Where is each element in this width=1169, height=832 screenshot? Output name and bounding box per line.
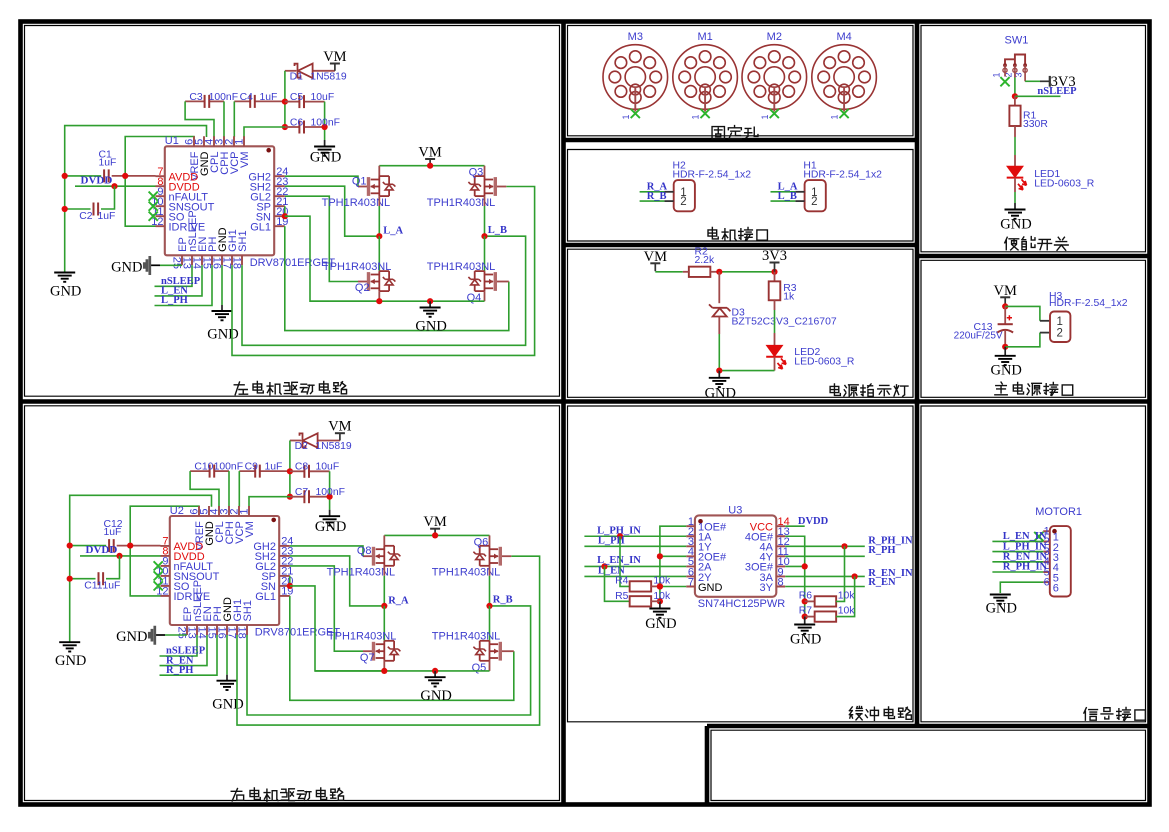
ground GND bottom rail U1	[429, 301, 431, 307]
svg-text:VM: VM	[323, 49, 346, 65]
svg-text:Q2: Q2	[355, 282, 370, 294]
svg-text:L_EN_IN: L_EN_IN	[597, 555, 641, 566]
wire SP-SN tie U2	[289, 576, 291, 586]
svg-text:100nF: 100nF	[311, 117, 340, 128]
resistor R5 10k	[605, 566, 630, 601]
wire GL2 to Q2 gate U2	[290, 566, 363, 651]
left motor driver block	[50, 49, 535, 355]
wire C5-C6 right U1	[324, 102, 326, 140]
wire SH2 to node R_A U2	[290, 556, 385, 606]
svg-text:GND: GND	[705, 385, 736, 401]
svg-text:10k: 10k	[653, 591, 671, 602]
mounting hole M1	[673, 45, 738, 110]
zener diode D3 BZT52C3V3	[718, 272, 720, 303]
svg-text:C8: C8	[295, 462, 309, 473]
svg-text:GND: GND	[790, 632, 821, 648]
svg-text:R5: R5	[615, 591, 629, 602]
wire U3 pin10 3OE#	[785, 565, 805, 567]
wire GH2 to Q1 gate U1	[285, 176, 358, 186]
svg-text:1N5819: 1N5819	[310, 72, 347, 83]
capacitor C11 1uF	[98, 572, 100, 585]
svg-text:L_A: L_A	[383, 226, 403, 237]
svg-text:8: 8	[778, 576, 784, 588]
gnd flag EP U2	[156, 634, 166, 636]
svg-text:2.2k: 2.2k	[695, 255, 715, 266]
svg-text:1: 1	[234, 139, 246, 145]
svg-text:GND: GND	[50, 284, 81, 300]
svg-text:GND: GND	[645, 616, 676, 632]
net label R_EN_IN signal	[992, 561, 1043, 563]
net label L_PH_IN signal	[992, 551, 1043, 553]
svg-text:1uF: 1uF	[99, 158, 117, 169]
svg-text:Q4: Q4	[467, 292, 482, 304]
wire DVDD row U1	[75, 185, 156, 187]
title 电源指示灯	[830, 384, 840, 395]
svg-text:M4: M4	[836, 31, 851, 43]
ground GND signal	[990, 594, 1011, 596]
title 使能开关	[1005, 237, 1019, 250]
svg-text:100nF: 100nF	[316, 487, 345, 498]
wire AVDD row U2	[70, 545, 107, 547]
node L_A junction	[376, 233, 382, 239]
resistor R6 10k	[802, 598, 808, 604]
title 主电源接口	[995, 382, 1007, 395]
svg-text:1: 1	[691, 114, 701, 119]
svg-text:VM: VM	[423, 514, 446, 530]
net label R_EN_IN wire	[785, 575, 865, 577]
capacitor C2 1uF	[93, 203, 95, 216]
ground GND indicator	[718, 371, 720, 378]
led LED1 LED-0603_R	[1007, 166, 1023, 177]
svg-text:VM: VM	[994, 283, 1017, 299]
ground GND U3 right	[804, 617, 806, 625]
no-connect x M4 pin	[840, 109, 849, 118]
svg-text:GND: GND	[116, 629, 147, 645]
svg-text:SN74HC125PWR: SN74HC125PWR	[698, 598, 785, 610]
wire R2 to 3V3	[719, 271, 774, 273]
ground GND below C6 U2	[329, 510, 331, 517]
svg-text:1uF: 1uF	[98, 211, 116, 222]
svg-text:GND: GND	[212, 696, 243, 712]
svg-text:1uF: 1uF	[260, 92, 278, 103]
net label R_PH_IN signal	[992, 571, 1043, 573]
svg-text:VM: VM	[418, 145, 441, 161]
svg-text:R4: R4	[615, 575, 629, 586]
ground GND bottom rail U2	[434, 671, 436, 677]
net label R_EN U2	[160, 635, 208, 666]
svg-text:BZT52C3V3_C216707: BZT52C3V3_C216707	[732, 317, 837, 328]
net label R_EN wire	[785, 586, 865, 588]
ic U2 left pins	[161, 546, 170, 596]
svg-text:GND: GND	[420, 688, 451, 704]
svg-text:3V3: 3V3	[762, 248, 787, 264]
title 右电机驱动电路	[231, 789, 243, 801]
connector H1 HDR-F-2.54_1x2	[805, 180, 826, 211]
svg-text:GND: GND	[415, 318, 446, 334]
svg-text:1N5819: 1N5819	[315, 441, 352, 452]
wire C5-C6 right U2	[329, 471, 331, 509]
wire VM rail vertical U2	[289, 441, 291, 497]
svg-text:LED-0603_R: LED-0603_R	[794, 357, 855, 368]
svg-text:1: 1	[1057, 316, 1063, 328]
wire VREF-IDRIVE net U1	[125, 137, 194, 227]
power flag VM diode U2	[335, 432, 345, 434]
svg-text:R_PH_IN: R_PH_IN	[1003, 562, 1048, 573]
transistor Q1 TPH1R403NL	[367, 177, 370, 196]
wire MOTOR1 pin6 GND	[1000, 582, 1043, 593]
svg-text:220uF/25V: 220uF/25V	[954, 331, 1003, 342]
wire VM rail vertical U1	[284, 71, 286, 127]
svg-text:1: 1	[991, 72, 1001, 77]
wire GH1 to Q3 gate U1	[232, 187, 535, 356]
svg-text:VM: VM	[644, 249, 667, 265]
resistor R3 1k	[774, 272, 776, 282]
svg-text:7: 7	[688, 576, 694, 588]
svg-text:GND: GND	[698, 582, 723, 594]
wire CPH U1	[223, 101, 225, 137]
svg-text:R7: R7	[799, 606, 813, 617]
svg-text:M1: M1	[697, 31, 712, 43]
diode D2 1N5819	[290, 440, 301, 442]
wire LED2 to GND rail	[719, 370, 774, 372]
capacitor C8 10uF	[287, 468, 293, 474]
wire GL1 to Q4 gate U1	[285, 226, 509, 330]
svg-text:R_PH: R_PH	[868, 545, 895, 556]
diode D1 1N5819	[285, 70, 296, 72]
ground GND pin16 U1	[221, 265, 223, 305]
wire U3 right OE vertical	[785, 536, 805, 616]
svg-text:M3: M3	[628, 31, 643, 43]
svg-text:DVDD: DVDD	[86, 544, 118, 556]
capacitor C9 1uF	[239, 470, 255, 472]
wire Q1 drain U1	[378, 166, 380, 177]
mounting hole M2	[742, 45, 807, 110]
resistor R1 330R	[1014, 96, 1016, 105]
svg-text:HDR-F-2.54_1x2: HDR-F-2.54_1x2	[1049, 298, 1128, 309]
wire C2 row U1	[65, 208, 91, 210]
svg-text:GND: GND	[310, 150, 341, 166]
transistor Q2 TPH1R403NL	[378, 236, 380, 271]
net label L_EN_IN signal	[992, 540, 1043, 542]
svg-text:1: 1	[830, 114, 840, 119]
led LED2 LED-0603_R	[767, 345, 783, 356]
svg-text:U3: U3	[728, 505, 742, 517]
ground GND left rail U2	[59, 641, 80, 643]
wire U3 pin7 GND	[660, 586, 686, 588]
svg-text:1: 1	[621, 114, 631, 119]
mounting hole M3	[603, 45, 668, 110]
svg-text:Q8: Q8	[357, 545, 372, 557]
svg-text:VM: VM	[328, 419, 351, 435]
wire CPL jog U1	[185, 101, 214, 137]
net label L_EN wire	[584, 575, 686, 577]
connector H3 HDR-F-2.54_1x2	[1050, 312, 1070, 343]
svg-text:GL1: GL1	[250, 222, 271, 234]
svg-text:2: 2	[1057, 328, 1063, 340]
ic U3 SN74HC125PWR body	[695, 515, 776, 596]
connector H2 HDR-F-2.54_1x2	[674, 180, 695, 211]
title 左电机驱动电路	[234, 382, 247, 395]
capacitor C10 100nF	[190, 470, 210, 472]
svg-text:10k: 10k	[838, 606, 856, 617]
transistor Q6 TPH1R403NL	[489, 535, 491, 546]
title 电机接口	[708, 227, 718, 238]
svg-text:C9: C9	[245, 462, 259, 473]
svg-text:2: 2	[811, 196, 817, 208]
wire SH2 to node L_A U1	[285, 186, 380, 236]
capacitor C5 10uF	[282, 99, 288, 105]
wire SW1 pin3 to 3V3	[1024, 70, 1026, 81]
svg-text:10uF: 10uF	[316, 462, 340, 473]
svg-text:100nF: 100nF	[214, 462, 243, 473]
svg-text:U2: U2	[170, 505, 184, 517]
ic U2 top pins	[199, 506, 249, 516]
ground GND pin16 U2	[226, 635, 228, 675]
resistor R7 10k	[802, 614, 808, 620]
transistor Q5 TPH1R403NL	[489, 606, 491, 641]
wire VM to R2	[655, 271, 683, 273]
svg-text:GND: GND	[990, 363, 1021, 379]
net label DVDD U3	[785, 525, 805, 527]
svg-text:L_B: L_B	[488, 225, 507, 236]
capacitor C1 1uF	[103, 169, 105, 182]
node R_B junction	[486, 603, 492, 609]
wire Q1 source to node L_A U1	[378, 196, 380, 206]
wire bottom rail U1	[310, 300, 485, 302]
svg-text:SW1: SW1	[1005, 35, 1029, 47]
capacitor C13 220uF/25V polarized	[1004, 306, 1006, 324]
svg-text:D1: D1	[290, 72, 304, 83]
wire VM top rail U1	[379, 165, 484, 167]
net label L_B	[771, 200, 796, 202]
svg-text:R_PH: R_PH	[166, 665, 193, 676]
no-connect x M3 pin	[631, 109, 640, 118]
wire CPH U2	[228, 471, 230, 507]
no-connect x M2 pin	[770, 109, 779, 118]
wire left rail + GND net of U2	[70, 495, 212, 641]
no-connect x M1 pin	[701, 109, 710, 118]
svg-text:1: 1	[239, 508, 251, 514]
wire bottom rail U2	[315, 670, 490, 672]
ground GND left rail U1	[54, 272, 75, 274]
wire SH1 to R_AB U2	[247, 606, 531, 715]
node L_B junction	[481, 233, 487, 239]
power flag VM H-bridge U2	[430, 528, 440, 530]
svg-text:3Y: 3Y	[760, 582, 774, 594]
title 固定孔	[712, 127, 724, 139]
svg-text:1: 1	[760, 114, 770, 119]
ic U3 pins	[686, 526, 785, 586]
svg-text:GND: GND	[986, 601, 1017, 617]
no-connect x pins 9-11 U1	[149, 192, 158, 201]
svg-text:GND: GND	[315, 519, 346, 535]
net label nSLEEP switch	[1014, 70, 1016, 77]
power flag 3V3 switch	[1049, 76, 1051, 87]
capacitor C7 100nF	[287, 494, 293, 500]
svg-text:C5: C5	[290, 92, 304, 103]
svg-text:nSLEEP: nSLEEP	[1037, 86, 1077, 97]
net label R_A	[640, 191, 665, 193]
svg-text:1uF: 1uF	[265, 462, 283, 473]
net label L_EN_IN wire	[584, 565, 686, 567]
svg-text:HDR-F-2.54_1x2: HDR-F-2.54_1x2	[673, 170, 752, 181]
mounting hole M4	[812, 45, 877, 110]
resistor R2 2.2k	[689, 267, 711, 277]
power flag 3V3 indicator	[770, 262, 780, 264]
wire DVDD row U2	[80, 555, 161, 557]
capacitor C4 1uF	[234, 100, 250, 102]
wire VCP U2	[238, 471, 240, 507]
svg-text:TPH1R403NL: TPH1R403NL	[427, 261, 495, 273]
capacitor C3 100nF	[185, 100, 205, 102]
svg-text:MOTOR1: MOTOR1	[1035, 506, 1082, 518]
svg-text:1uF: 1uF	[104, 527, 122, 538]
svg-text:C10: C10	[194, 462, 213, 473]
wire C13 to H3 pin2	[1005, 333, 1040, 347]
transistor Q4 TPH1R403NL	[484, 236, 486, 271]
svg-text:HDR-F-2.54_1x2: HDR-F-2.54_1x2	[803, 170, 882, 181]
svg-text:C3: C3	[189, 92, 203, 103]
svg-text:Q5: Q5	[472, 662, 487, 674]
svg-text:C2: C2	[79, 211, 93, 222]
svg-text:D2: D2	[295, 441, 309, 452]
capacitor C12 1uF	[108, 539, 110, 552]
net label R_PH wire	[785, 555, 865, 557]
wire VM pin1 U1	[244, 127, 285, 137]
svg-text:C6: C6	[290, 117, 304, 128]
svg-text:GND: GND	[55, 653, 86, 669]
wire SH1 to L_AB U1	[242, 236, 526, 345]
ic U1 top pins	[194, 136, 244, 146]
power flag VM indicator	[650, 262, 660, 264]
svg-text:R_B: R_B	[493, 595, 513, 606]
net label nSLEEP U1	[155, 265, 193, 286]
wire left rail + GND net of U1	[65, 126, 207, 272]
svg-text:6: 6	[1053, 583, 1059, 595]
svg-text:C7: C7	[295, 487, 309, 498]
gnd flag EP U1	[151, 264, 161, 266]
svg-text:L_B: L_B	[778, 191, 797, 202]
wire AVDD row U1	[65, 175, 102, 177]
svg-text:Q3: Q3	[469, 167, 484, 179]
net label L_A	[771, 191, 796, 193]
wire VM top rail U2	[384, 534, 489, 536]
net label R_B	[640, 200, 665, 202]
ground GND switch	[1014, 203, 1016, 210]
wire GL2 to Q2 gate U1	[285, 196, 358, 281]
ic U1 bottom pins	[182, 255, 242, 265]
ic U1 right pins	[274, 176, 285, 226]
wire GH2 to Q1 gate U2	[290, 546, 363, 556]
node R_A junction	[381, 603, 387, 609]
net label L_EN U1	[155, 265, 203, 296]
wire C2 row U2	[70, 578, 96, 580]
svg-text:12: 12	[151, 216, 163, 228]
transistor Q3 TPH1R403NL	[484, 166, 486, 177]
svg-text:TPH1R403NL: TPH1R403NL	[432, 631, 500, 643]
svg-text:R_EN: R_EN	[868, 577, 896, 588]
net label nSLEEP U2	[160, 635, 198, 656]
svg-text:10k: 10k	[838, 590, 856, 601]
ic U1 left pins	[156, 176, 165, 226]
no-connect x pins 9-11 U2	[154, 561, 163, 570]
svg-text:TPH1R403NL: TPH1R403NL	[328, 631, 396, 643]
net label R_PH_IN wire	[785, 545, 865, 547]
svg-text:Q6: Q6	[474, 536, 489, 548]
power flag VM main	[1000, 296, 1010, 298]
wire VCP U1	[233, 101, 235, 137]
wire VREF-IDRIVE net U2	[130, 506, 199, 596]
svg-text:VM: VM	[239, 152, 251, 169]
right motor driver block	[55, 419, 540, 725]
ground GND main power	[1004, 347, 1006, 356]
net label R_PH U2	[160, 635, 218, 675]
svg-text:M2: M2	[767, 31, 782, 43]
transistor Q7 TPH1R403NL	[383, 606, 385, 641]
ic U2 bottom pins	[187, 625, 247, 635]
wire CPL jog U2	[190, 471, 219, 507]
svg-text:Q7: Q7	[360, 652, 375, 664]
svg-text:R_B: R_B	[647, 191, 667, 202]
capacitor C6 100nF	[282, 124, 288, 130]
svg-text:6: 6	[1044, 577, 1050, 589]
svg-text:U1: U1	[165, 135, 179, 147]
power flag VM diode U1	[330, 63, 340, 65]
resistor R4 10k	[620, 536, 630, 586]
ic U2 DRV8701ERGET body	[170, 516, 279, 625]
power flag VM H-bridge U1	[425, 158, 435, 160]
svg-text:GL1: GL1	[255, 591, 276, 603]
net label L_PH U1	[155, 265, 213, 305]
no-connect x SW1 pin1	[1004, 70, 1006, 76]
connector MOTOR1	[1050, 526, 1071, 596]
wire SP-SN tie U1	[284, 206, 286, 216]
ground GND U3 left	[657, 598, 663, 604]
svg-text:TPH1R403NL: TPH1R403NL	[323, 261, 391, 273]
svg-text:330R: 330R	[1023, 119, 1048, 130]
svg-text:1uF: 1uF	[103, 581, 121, 592]
title 缓冲电路	[849, 706, 862, 720]
svg-text:2: 2	[680, 196, 686, 208]
wire VM to H3 pin1	[1005, 306, 1040, 320]
svg-text:LED-0603_R: LED-0603_R	[1034, 179, 1095, 190]
svg-text:GND: GND	[111, 259, 142, 275]
svg-text:VM: VM	[244, 521, 256, 538]
title 信号接口	[1084, 708, 1098, 720]
wire VM pin1 U2	[249, 497, 290, 507]
svg-text:Q1: Q1	[352, 175, 367, 187]
ic U2 right pins	[279, 546, 290, 596]
svg-text:12: 12	[156, 586, 168, 598]
svg-text:100nF: 100nF	[209, 92, 238, 103]
wire SN to bottom rail U2	[290, 586, 385, 671]
svg-text:10uF: 10uF	[311, 92, 335, 103]
wire U3 pin4 2OE#	[660, 555, 686, 557]
svg-text:GND: GND	[1000, 217, 1031, 233]
wire Q1 source to node R_A U2	[383, 566, 385, 576]
svg-text:C11: C11	[84, 581, 103, 592]
svg-text:C4: C4	[240, 92, 254, 103]
wire Q1 drain U2	[383, 535, 385, 546]
svg-text:GND: GND	[207, 327, 238, 343]
wire SN to bottom rail U1	[285, 216, 380, 301]
svg-text:SH1: SH1	[242, 600, 254, 621]
svg-text:R6: R6	[799, 590, 813, 601]
net label L_PH_IN wire	[584, 535, 686, 537]
svg-text:SH1: SH1	[237, 230, 249, 251]
ic U1 DRV8701ERGET body	[165, 146, 274, 255]
wire GL1 to Q4 gate U2	[290, 596, 514, 700]
